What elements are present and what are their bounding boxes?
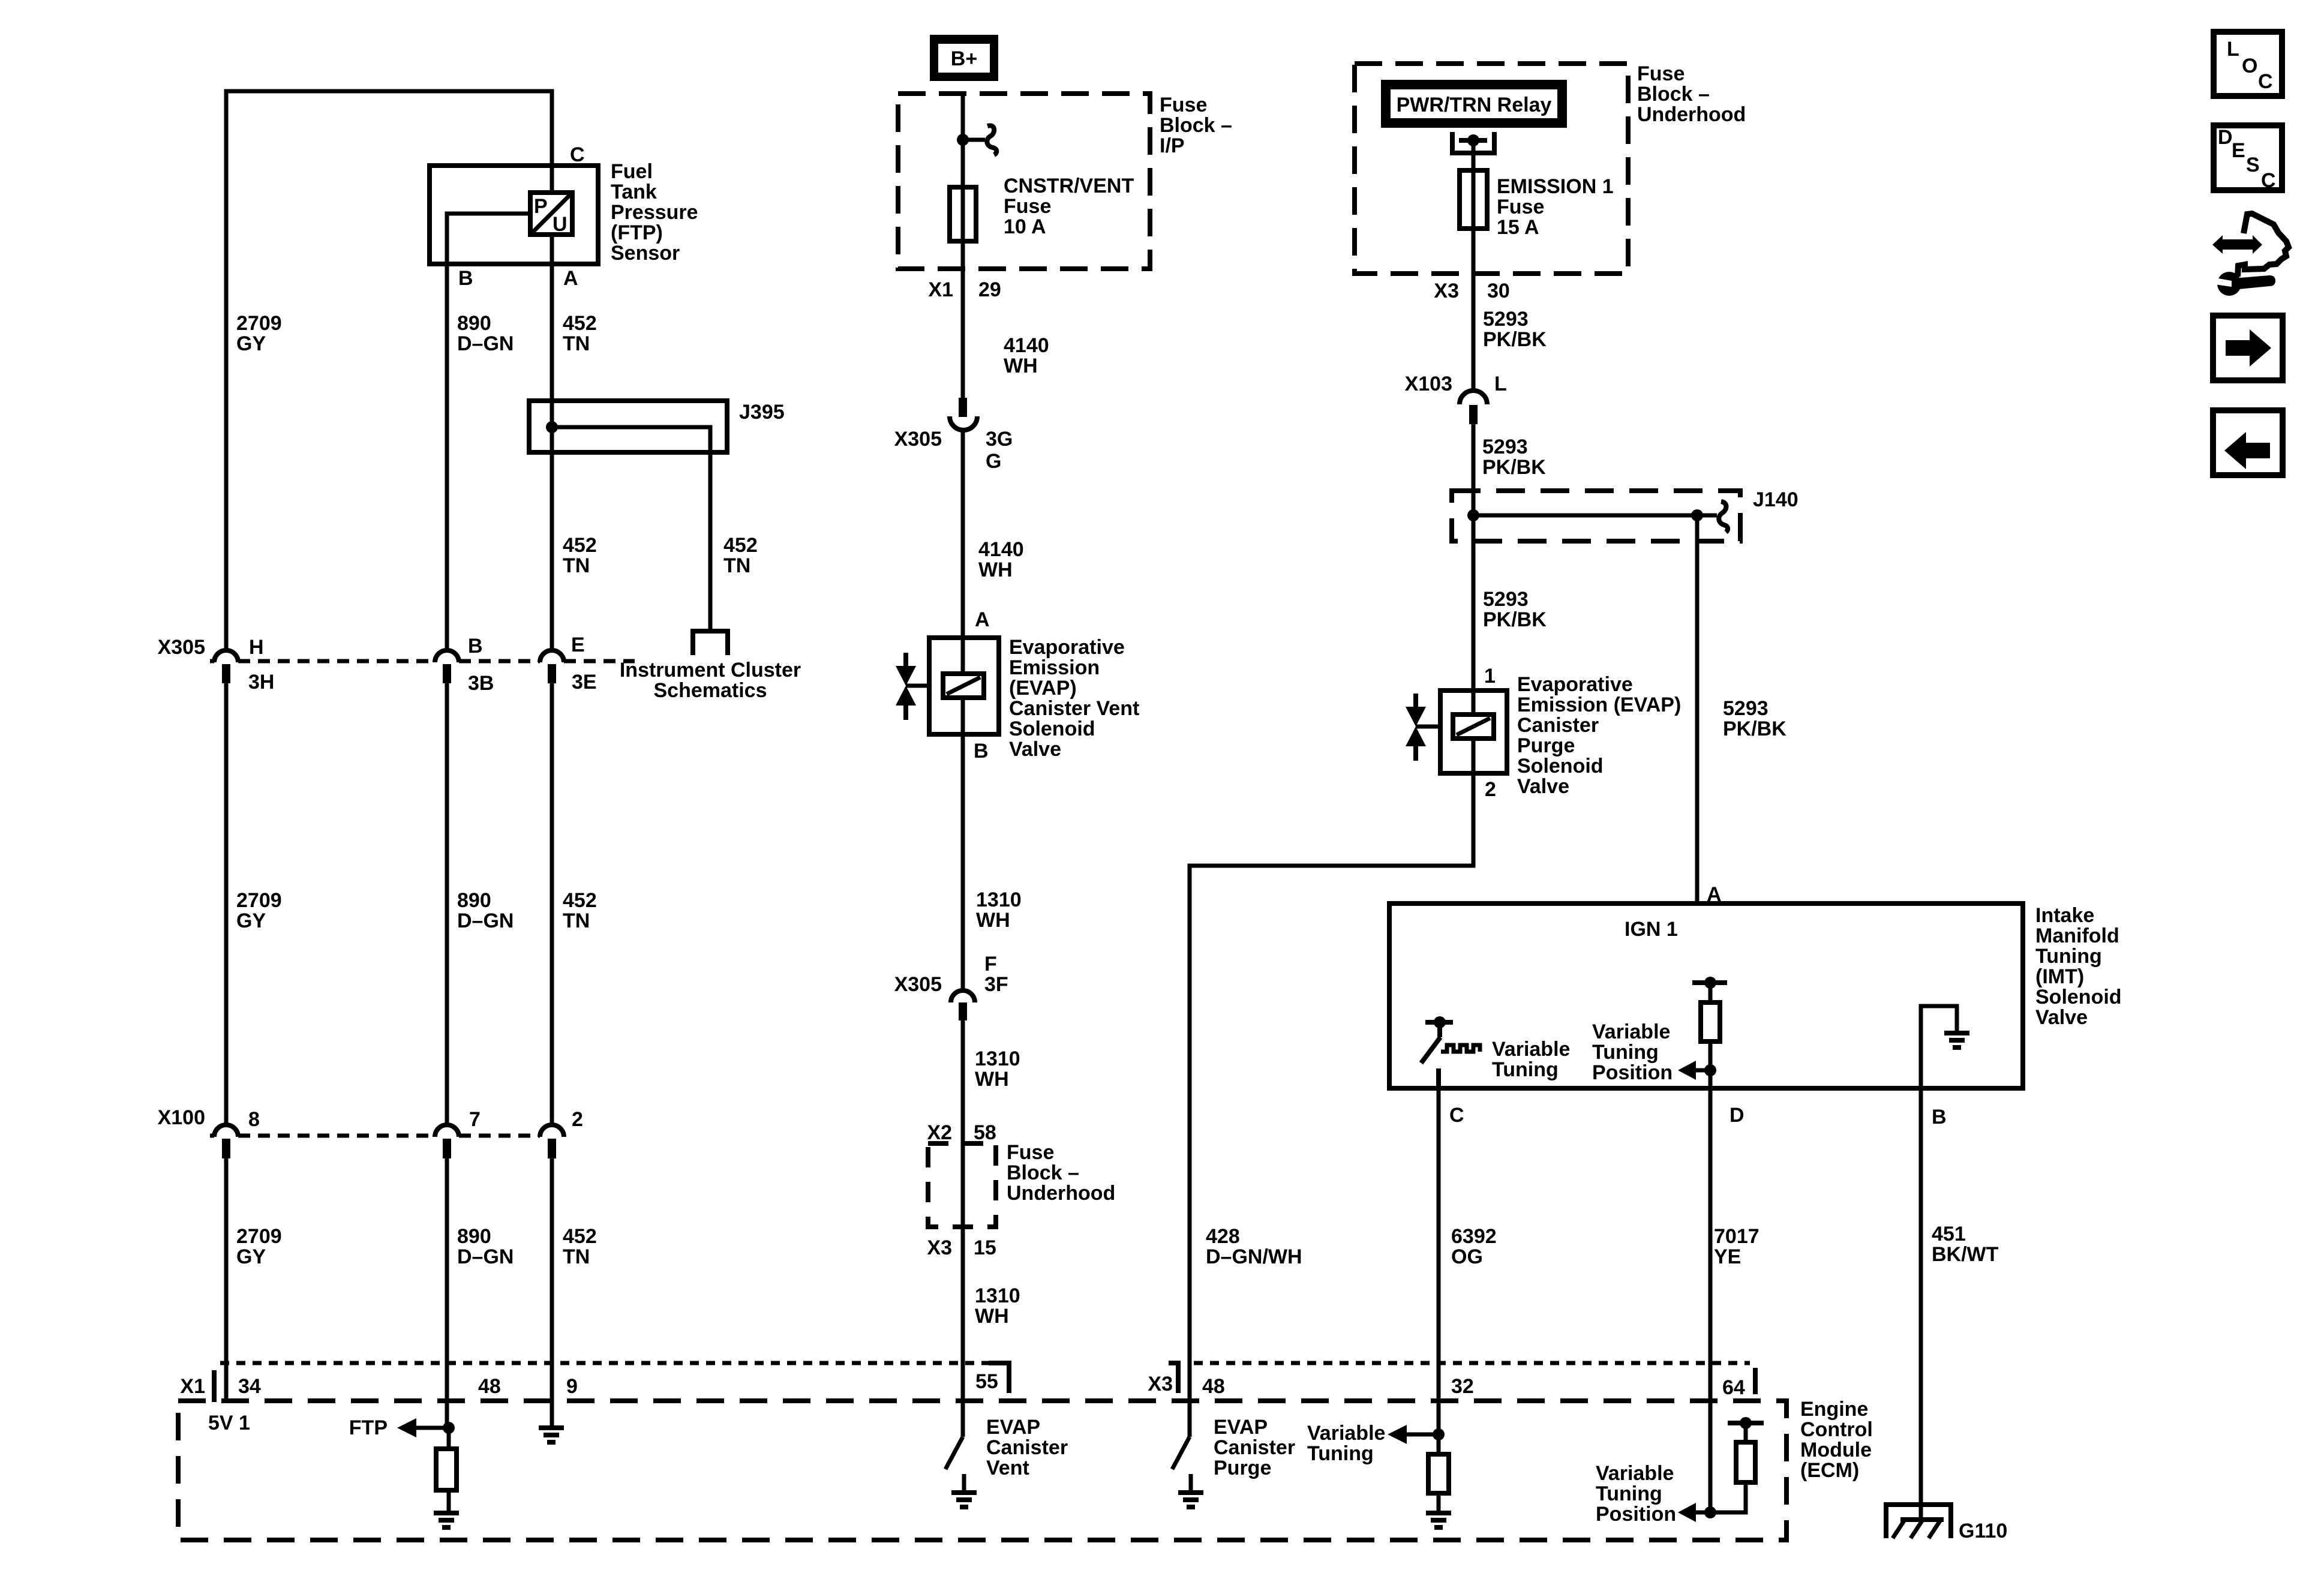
svg-text:2709: 2709	[236, 312, 282, 335]
svg-text:Fuse: Fuse	[1637, 62, 1685, 85]
svg-text:PK/BK: PK/BK	[1482, 456, 1546, 479]
svg-text:X305: X305	[894, 973, 942, 996]
svg-text:Module: Module	[1800, 1439, 1872, 1461]
wire A below transducer	[550, 235, 554, 266]
wire to fuse	[1472, 140, 1476, 170]
Intake Manifold Tuning (IMT) Solenoid Valve box	[1389, 903, 2023, 1088]
Fuse Block Underhood dashed box	[1355, 64, 1628, 274]
svg-text:Block –: Block –	[1160, 114, 1232, 137]
svg-text:Pressure: Pressure	[611, 201, 698, 224]
svg-text:Tuning: Tuning	[1492, 1058, 1559, 1081]
valve flow symbol	[896, 653, 929, 720]
P/U pressure transducer symbol	[530, 193, 572, 236]
svg-text:2709: 2709	[236, 1225, 282, 1248]
svg-text:FTP: FTP	[349, 1416, 388, 1439]
svg-text:2: 2	[1485, 778, 1496, 801]
variable tuning position resistor	[1678, 977, 1727, 1088]
splice pack J395	[529, 401, 727, 631]
X3 boundary tick	[1169, 1363, 1178, 1393]
svg-text:WH: WH	[1004, 355, 1038, 377]
svg-text:15 A: 15 A	[1497, 216, 1539, 239]
X100 terminal 7	[435, 1125, 459, 1137]
wire C into sensor	[550, 166, 554, 194]
svg-text:GY: GY	[236, 1245, 266, 1268]
wire B inside sensor	[447, 214, 530, 266]
Engine Control Module (ECM) dashed box	[178, 1401, 1786, 1540]
svg-text:X305: X305	[158, 636, 205, 659]
svg-text:5293: 5293	[1723, 697, 1768, 720]
svg-text:Tuning: Tuning	[2035, 945, 2102, 968]
X305 terminal B	[435, 650, 459, 662]
wire 5293 branch to IMT pin A	[1695, 515, 1700, 903]
wire from B+	[961, 94, 965, 187]
svg-text:OG: OG	[1451, 1245, 1483, 1268]
svg-text:29: 29	[978, 278, 1001, 301]
svg-text:D–GN: D–GN	[457, 909, 514, 932]
svg-text:WH: WH	[978, 559, 1013, 581]
svg-text:X103: X103	[1405, 373, 1452, 395]
svg-text:Position: Position	[1592, 1061, 1673, 1084]
wire 428 route from purge valve to ECM	[1190, 773, 1473, 1401]
svg-text:(IMT): (IMT)	[2035, 965, 2084, 988]
Fuse Block Underhood pass-through dashed box	[928, 1143, 996, 1227]
svg-text:Purge: Purge	[1517, 734, 1575, 757]
EVAP canister purge driver switch	[1172, 1401, 1203, 1507]
svg-text:Tank: Tank	[611, 181, 657, 203]
B+ power feed box	[930, 35, 998, 81]
FTP resistor ground	[434, 1513, 459, 1527]
svg-text:1310: 1310	[975, 1047, 1020, 1070]
svg-text:Block –: Block –	[1007, 1161, 1079, 1184]
svg-text:7: 7	[469, 1108, 481, 1131]
svg-text:30: 30	[1487, 280, 1510, 302]
svg-text:6392: 6392	[1451, 1225, 1497, 1248]
connector X1 pin 29 of fuse block	[961, 269, 965, 312]
LOC legend box	[2214, 32, 2282, 96]
svg-text:Variable: Variable	[1596, 1462, 1674, 1485]
svg-text:A: A	[975, 608, 990, 631]
svg-text:X305: X305	[894, 428, 942, 451]
svg-text:J140: J140	[1753, 488, 1798, 511]
svg-text:5293: 5293	[1482, 436, 1528, 458]
CNSTR/VENT fuse body	[950, 187, 976, 241]
svg-text:D–GN/WH: D–GN/WH	[1206, 1245, 1302, 1268]
svg-text:TN: TN	[723, 554, 750, 577]
wire 4140 WH lower run	[961, 431, 965, 638]
svg-text:Solenoid: Solenoid	[1009, 718, 1095, 740]
svg-text:L: L	[1494, 373, 1507, 395]
diagnostic car + wrench icon	[2212, 214, 2289, 296]
svg-text:Purge: Purge	[1214, 1457, 1271, 1479]
svg-text:Sensor: Sensor	[611, 242, 680, 265]
connector X305 row dashed line	[210, 659, 214, 664]
svg-text:428: 428	[1206, 1225, 1240, 1248]
svg-text:Valve: Valve	[2035, 1006, 2088, 1029]
svg-text:IGN 1: IGN 1	[1625, 918, 1678, 941]
svg-text:S: S	[2246, 154, 2260, 176]
PWR/TRN Relay box	[1381, 80, 1567, 128]
svg-text:WH: WH	[975, 1305, 1009, 1328]
svg-text:Fuse: Fuse	[1004, 195, 1051, 218]
svg-text:1310: 1310	[975, 1284, 1020, 1307]
wire 4140 WH upper run	[961, 312, 965, 398]
svg-text:C: C	[1449, 1104, 1464, 1127]
svg-text:Emission (EVAP): Emission (EVAP)	[1517, 694, 1681, 716]
svg-text:GY: GY	[236, 909, 266, 932]
wire 2709 GY mid run	[224, 683, 229, 1126]
svg-text:Underhood: Underhood	[1007, 1182, 1115, 1205]
wire 452 TN lower run	[550, 1158, 554, 1427]
splice bus wire	[1473, 514, 1717, 518]
wire 6392 OG run	[1437, 1088, 1441, 1401]
svg-text:3F: 3F	[984, 973, 1008, 996]
svg-text:Fuse: Fuse	[1007, 1141, 1054, 1164]
back arrow legend box	[2213, 410, 2283, 475]
svg-text:7017: 7017	[1714, 1225, 1759, 1248]
svg-text:F: F	[984, 953, 997, 975]
variable tuning position input network	[1678, 1401, 1764, 1522]
EMISSION 1 fuse body	[1460, 170, 1487, 229]
svg-text:Solenoid: Solenoid	[2035, 986, 2122, 1008]
wire 451 BK/WT run	[1919, 1088, 1923, 1520]
svg-text:WH: WH	[976, 909, 1010, 932]
in-line connector X305 3G (pin above cup)	[950, 398, 977, 430]
svg-text:1310: 1310	[976, 888, 1022, 911]
svg-text:X1: X1	[180, 1375, 205, 1398]
svg-text:PK/BK: PK/BK	[1483, 328, 1547, 351]
wire 452 TN run	[550, 266, 554, 652]
svg-text:X100: X100	[158, 1106, 205, 1129]
svg-text:TN: TN	[563, 909, 590, 932]
svg-text:C: C	[2258, 70, 2273, 93]
svg-text:Canister: Canister	[1517, 714, 1599, 737]
FTP pull-up resistor	[436, 1449, 457, 1490]
svg-text:EVAP: EVAP	[1214, 1416, 1268, 1439]
FTP sense network: junction	[443, 1422, 455, 1434]
svg-text:PK/BK: PK/BK	[1483, 608, 1547, 631]
svg-text:C: C	[570, 143, 585, 166]
ECM connector X1 dotted row	[220, 1361, 996, 1365]
svg-text:34: 34	[238, 1375, 261, 1398]
svg-text:452: 452	[563, 889, 597, 912]
wire 5293 upper run	[1472, 312, 1476, 390]
svg-text:452: 452	[563, 1225, 597, 1248]
svg-text:Instrument Cluster: Instrument Cluster	[620, 659, 801, 682]
svg-text:I/P: I/P	[1160, 134, 1185, 157]
wire below fuse	[1472, 229, 1476, 274]
svg-text:BK/WT: BK/WT	[1932, 1243, 1999, 1266]
relay output junction	[1467, 134, 1479, 146]
wire 890 D-GN lower run	[445, 1158, 449, 1428]
svg-text:YE: YE	[1714, 1245, 1741, 1268]
splice branch junction	[1691, 509, 1703, 521]
svg-text:(EVAP): (EVAP)	[1009, 677, 1077, 700]
svg-text:(FTP): (FTP)	[611, 221, 663, 244]
wire 890 D-GN run	[445, 266, 449, 652]
svg-text:U: U	[553, 213, 568, 236]
svg-text:Tuning: Tuning	[1596, 1482, 1662, 1505]
solenoid coil symbol	[943, 674, 984, 698]
svg-text:9: 9	[566, 1375, 578, 1398]
svg-text:3G: 3G	[986, 428, 1013, 451]
svg-text:TN: TN	[563, 332, 590, 355]
svg-text:10 A: 10 A	[1004, 215, 1046, 238]
svg-text:Evaporative: Evaporative	[1009, 636, 1125, 659]
svg-text:Vent: Vent	[986, 1457, 1029, 1479]
svg-text:4140: 4140	[1004, 334, 1049, 357]
wire 2709 GY top loop	[226, 91, 552, 652]
svg-text:5V 1: 5V 1	[208, 1412, 250, 1434]
variable tuning resistor ground	[1426, 1513, 1451, 1527]
connector X100 row dashed line	[210, 1134, 214, 1138]
svg-text:PK/BK: PK/BK	[1723, 718, 1786, 740]
svg-text:Solenoid: Solenoid	[1517, 755, 1604, 778]
svg-text:452: 452	[563, 534, 597, 557]
wire through pass-through	[961, 1143, 965, 1227]
svg-text:Position: Position	[1596, 1503, 1676, 1526]
variable tuning input: junction and arrow	[1388, 1401, 1445, 1454]
svg-text:B: B	[1932, 1106, 1947, 1128]
svg-text:B: B	[468, 635, 483, 658]
svg-text:L: L	[2227, 38, 2239, 61]
svg-text:15: 15	[974, 1236, 996, 1259]
svg-text:2: 2	[572, 1108, 583, 1131]
forward arrow legend box	[2213, 316, 2283, 380]
svg-text:X3: X3	[927, 1236, 952, 1259]
svg-text:64: 64	[1722, 1376, 1745, 1399]
svg-text:8: 8	[248, 1108, 260, 1131]
svg-text:4140: 4140	[978, 538, 1024, 561]
valve flow symbol	[1406, 694, 1440, 761]
wire 7017 YE run	[1709, 1088, 1713, 1401]
svg-text:B: B	[458, 267, 473, 290]
svg-text:3E: 3E	[572, 671, 597, 694]
X100 terminal 8	[214, 1125, 238, 1137]
svg-text:2709: 2709	[236, 889, 282, 912]
svg-text:D–GN: D–GN	[457, 1245, 514, 1268]
X305 terminal E	[540, 650, 564, 662]
svg-text:E: E	[2232, 139, 2245, 162]
svg-text:WH: WH	[975, 1068, 1009, 1091]
svg-text:Valve: Valve	[1517, 775, 1569, 798]
svg-text:Tuning: Tuning	[1307, 1442, 1374, 1465]
svg-text:55: 55	[975, 1370, 998, 1393]
svg-text:Variable: Variable	[1592, 1020, 1670, 1043]
fuse element curl	[987, 125, 996, 155]
svg-text:Canister Vent: Canister Vent	[1009, 697, 1139, 720]
splice junction on 5293	[1467, 509, 1479, 521]
FTP arrow	[416, 1426, 449, 1430]
svg-text:32: 32	[1451, 1375, 1474, 1398]
svg-text:451: 451	[1932, 1223, 1966, 1245]
fuse feed junction	[957, 134, 969, 146]
svg-text:PWR/TRN Relay: PWR/TRN Relay	[1397, 94, 1552, 116]
internal ground of IMT valve	[1921, 1006, 1969, 1088]
svg-text:452: 452	[563, 312, 597, 335]
svg-text:48: 48	[1202, 1375, 1225, 1398]
X1 boundary tick	[212, 1370, 217, 1402]
splice end curl	[1719, 502, 1728, 532]
svg-text:J395: J395	[739, 401, 785, 424]
svg-text:Fuse: Fuse	[1160, 94, 1207, 116]
svg-text:E: E	[571, 634, 585, 656]
svg-text:B+: B+	[951, 47, 977, 70]
svg-text:CNSTR/VENT: CNSTR/VENT	[1004, 175, 1134, 197]
svg-text:TN: TN	[563, 1245, 590, 1268]
svg-text:X3: X3	[1434, 280, 1459, 302]
svg-text:3H: 3H	[248, 671, 274, 694]
wire 1310 WH mid run	[961, 1020, 965, 1143]
svg-text:890: 890	[457, 312, 491, 335]
svg-text:Schematics: Schematics	[654, 679, 767, 702]
svg-text:G: G	[986, 450, 1001, 473]
connector X3 pin 30 of fuse block	[1472, 274, 1476, 312]
svg-text:Underhood: Underhood	[1637, 103, 1746, 126]
wire 1310 WH lower run	[961, 1227, 965, 1401]
svg-text:H: H	[249, 636, 264, 659]
svg-text:D: D	[1730, 1104, 1744, 1127]
svg-text:890: 890	[457, 889, 491, 912]
svg-text:P: P	[534, 195, 548, 218]
chassis ground G110	[1886, 1505, 1951, 1538]
svg-text:GY: GY	[236, 332, 266, 355]
svg-text:452: 452	[723, 534, 758, 557]
svg-text:Fuel: Fuel	[611, 160, 653, 183]
variable tuning pull resistor	[1428, 1454, 1449, 1493]
svg-text:X3: X3	[1148, 1373, 1173, 1395]
svg-text:58: 58	[974, 1121, 996, 1144]
wire 452 TN mid run	[550, 683, 554, 1126]
svg-text:Variable: Variable	[1492, 1038, 1570, 1061]
pin 9 internal ground	[539, 1401, 564, 1442]
wire 1310 WH upper run	[961, 734, 965, 991]
X305 terminal H	[214, 650, 238, 662]
svg-text:EVAP: EVAP	[986, 1416, 1040, 1439]
in-line connector X103 L (cup above pin)	[1460, 391, 1487, 424]
svg-text:D: D	[2218, 126, 2233, 149]
Fuel Tank Pressure (FTP) Sensor box	[430, 166, 598, 264]
splice J140 dashed box	[1452, 491, 1740, 541]
svg-text:890: 890	[457, 1225, 491, 1248]
solenoid coil symbol	[1453, 715, 1494, 739]
svg-text:Control: Control	[1800, 1418, 1873, 1441]
in-line connector X305 3F (cup above pin)	[951, 990, 975, 1020]
svg-text:Canister: Canister	[1214, 1436, 1295, 1459]
Fuse Block I/P dashed box	[898, 94, 1150, 269]
svg-text:1: 1	[1484, 665, 1496, 688]
svg-text:Emission: Emission	[1009, 656, 1100, 679]
relay output bracket	[1452, 132, 1494, 153]
svg-text:5293: 5293	[1483, 308, 1529, 331]
svg-text:Intake: Intake	[2035, 904, 2094, 927]
svg-text:EMISSION 1: EMISSION 1	[1497, 175, 1614, 198]
svg-text:X1: X1	[928, 278, 953, 301]
svg-text:C: C	[2261, 169, 2276, 192]
svg-text:Tuning: Tuning	[1592, 1041, 1659, 1064]
wire 5293 mid run	[1472, 424, 1476, 715]
svg-text:Engine: Engine	[1800, 1398, 1868, 1421]
svg-text:Evaporative: Evaporative	[1517, 673, 1633, 696]
svg-text:Canister: Canister	[986, 1436, 1068, 1459]
svg-text:Fuse: Fuse	[1497, 196, 1544, 218]
wire 2709 GY lower run	[224, 1158, 229, 1401]
svg-text:G110: G110	[1959, 1520, 2007, 1542]
svg-text:5293: 5293	[1483, 588, 1529, 611]
svg-text:(ECM): (ECM)	[1800, 1459, 1859, 1482]
instrument cluster terminal staple	[693, 631, 728, 655]
X100 terminal 2	[540, 1125, 564, 1137]
svg-text:48: 48	[478, 1375, 501, 1398]
EVAP canister vent driver switch	[945, 1401, 977, 1507]
svg-text:O: O	[2242, 55, 2257, 77]
EVAP canister vent solenoid valve box	[929, 638, 999, 734]
EVAP canister purge solenoid valve box	[1440, 691, 1507, 773]
svg-text:X2: X2	[927, 1121, 952, 1144]
svg-text:A: A	[563, 267, 578, 290]
wire below fuse	[961, 241, 965, 269]
svg-text:Block –: Block –	[1637, 83, 1710, 106]
svg-text:TN: TN	[563, 554, 590, 577]
DESC legend box	[2214, 125, 2282, 192]
svg-text:3B: 3B	[468, 672, 494, 695]
wire 890 D-GN mid run	[445, 683, 449, 1126]
svg-text:D–GN: D–GN	[457, 332, 514, 355]
variable tuning driver symbol	[1421, 1016, 1480, 1088]
svg-text:Variable: Variable	[1307, 1422, 1385, 1445]
svg-text:Manifold: Manifold	[2035, 924, 2119, 947]
svg-text:Valve: Valve	[1009, 738, 1061, 761]
svg-text:B: B	[974, 740, 989, 763]
